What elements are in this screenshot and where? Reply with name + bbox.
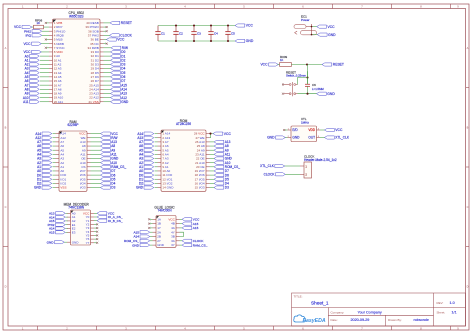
node RESET at CPU pin40 <box>104 22 111 24</box>
node D0 at ROM pin11 <box>155 174 158 176</box>
svg-text:C3: C3 <box>197 31 201 35</box>
no-connect 74HC138 Y6 <box>94 238 97 240</box>
svg-text:VCC: VCC <box>246 24 254 28</box>
node A6 at CPU pin15 <box>40 80 49 82</box>
svg-text:C2: C2 <box>179 31 183 35</box>
node A11 at ROM right pin <box>210 153 215 155</box>
node IRQ at CPU pin4 <box>42 34 49 36</box>
node D2 at ROM pin13 <box>155 182 158 184</box>
wire R009 to RESET node <box>292 64 323 66</box>
node A14 at RAM pin1 <box>53 133 56 135</box>
node XTL_CLK (XTL out) <box>320 137 325 139</box>
node D7 at ROM right pin <box>210 170 215 172</box>
no-connect XTL E/D <box>285 129 288 131</box>
wire EC1 sleeve to GND <box>312 34 318 36</box>
svg-text:GND: GND <box>72 240 80 244</box>
RAM pins and pin names <box>56 132 91 190</box>
svg-text:TITLE:: TITLE: <box>294 295 303 299</box>
node A11 at CPU pin20 <box>40 101 49 103</box>
no-connect 74HC138 Y4 <box>94 231 97 233</box>
node A7 at ROM pin3 <box>155 141 158 143</box>
svg-text:3Y: 3Y <box>171 243 175 247</box>
power flag VCC (reset) <box>269 63 279 66</box>
svg-text:W65C02S: W65C02S <box>69 15 84 19</box>
node RESET flag <box>322 63 332 66</box>
node RAM_CS_ at 74HC00 3Y <box>180 244 183 246</box>
node A3 at ROM pin7 <box>155 158 158 160</box>
svg-text:Power: Power <box>301 18 310 22</box>
node D0 at CPU pin33 <box>104 51 111 53</box>
node A13 at RAM right pin <box>91 141 101 143</box>
no-connect 74HC138 Y2 <box>94 223 97 225</box>
node D4 at RAM right pin <box>91 182 101 184</box>
wire EC1 tip to VCC <box>312 26 317 28</box>
svg-text:1K: 1K <box>37 21 41 25</box>
ground flag GND (EC1) <box>317 33 327 36</box>
node A2 at ROM pin8 <box>155 162 158 164</box>
capacitor C1 <box>157 26 159 32</box>
svg-text:RAM_CS_: RAM_CS_ <box>193 243 208 247</box>
node A7 at CPU pin16 <box>40 84 49 86</box>
svg-text:Y7: Y7 <box>86 241 90 245</box>
node A9 at RAM right pin <box>91 149 101 151</box>
svg-text:Your Company: Your Company <box>358 310 382 314</box>
no-connect 74HC138 Y5 <box>94 234 97 236</box>
svg-text:Drawn By:: Drawn By: <box>388 318 402 322</box>
svg-text:8: 8 <box>420 4 422 8</box>
svg-text:REV:: REV: <box>437 301 444 305</box>
node D7 at CPU pin26 <box>104 80 111 82</box>
svg-text:D: D <box>5 284 7 288</box>
node A10 at RAM right pin <box>91 162 101 164</box>
node A2 at CPU pin11 <box>40 63 49 65</box>
svg-text:D3: D3 <box>225 186 229 190</box>
node CLOCK at 74HC00 3A <box>180 240 183 242</box>
no-connect CPU pin35 <box>104 43 107 45</box>
node A14 at CPU pin24 <box>104 88 111 90</box>
svg-text:IO_B_CS_: IO_B_CS_ <box>108 219 123 223</box>
node A14 at 74HC138 input <box>66 216 68 218</box>
svg-text:GND: GND <box>327 92 335 96</box>
svg-text:20 A11: 20 A11 <box>54 100 64 104</box>
ground flag GND (74HC138) <box>64 241 67 243</box>
svg-text:GND: GND <box>157 243 165 247</box>
wire RESET node down to switch <box>298 65 308 85</box>
svg-text:IRQ: IRQ <box>25 34 31 38</box>
node A13 at ROM right pin <box>210 141 215 143</box>
svg-text:B: B <box>467 125 469 129</box>
svg-text:E3: E3 <box>72 230 76 234</box>
svg-text:VSS: VSS <box>60 186 66 190</box>
svg-text:RESET: RESET <box>121 21 132 25</box>
node A15 at 74HC00 2A <box>150 231 153 233</box>
ground flag GND (cap rail) <box>235 39 245 42</box>
svg-text:VCC: VCC <box>328 25 336 29</box>
power flag VCC at CPU pin8 <box>41 51 50 53</box>
node A5 at ROM pin5 <box>155 149 158 151</box>
node R/W at CPU pin34 <box>104 47 112 49</box>
node A5 at CPU pin14 <box>40 76 49 78</box>
capacitor C3 <box>193 26 195 32</box>
node A1 at ROM pin9 <box>155 166 158 168</box>
svg-text:GND: GND <box>328 33 336 37</box>
svg-text:6: 6 <box>302 4 304 8</box>
svg-text:B: B <box>5 125 7 129</box>
wire VCC to R009 <box>278 64 280 66</box>
no-connect 74HC00 1Y <box>150 227 153 229</box>
node A12 at RAM pin2 <box>53 137 56 139</box>
node IO_A_CS_ at Y0 <box>94 216 97 218</box>
svg-text:74HC00N: 74HC00N <box>158 209 173 213</box>
svg-text:1.0: 1.0 <box>450 301 455 305</box>
svg-text:VCC: VCC <box>14 25 22 29</box>
power flag VCC at CPU pin36 <box>104 39 107 41</box>
svg-text:C1: C1 <box>161 31 165 35</box>
no-connect 74HC138 Y7 <box>94 242 97 244</box>
wire switch bottom to GND node <box>298 93 317 95</box>
svg-text:RESET: RESET <box>333 63 344 67</box>
svg-text:GND: GND <box>292 136 300 140</box>
node A5 at RAM pin5 <box>53 149 56 151</box>
wire GND rail (decoupling) <box>158 40 235 42</box>
node A13 at CPU pin23 <box>104 92 111 94</box>
node CLOCK at CPU pin37 <box>104 34 110 36</box>
power flag VCC (XTL) <box>320 129 325 131</box>
node A0 at ROM pin10 <box>155 170 158 172</box>
svg-text:VCC: VCC <box>335 128 343 132</box>
power flag VCC at CPU pin6 <box>41 43 50 45</box>
no-connect CPU pin7 <box>47 47 50 49</box>
ground flag GND (XTL) <box>284 137 287 139</box>
svg-text:C4: C4 <box>214 31 218 35</box>
svg-text:OUT: OUT <box>308 136 315 140</box>
wire VCC rail (decoupling) <box>158 25 235 27</box>
svg-text:I/O3: I/O3 <box>80 186 86 190</box>
node A6 at ROM pin4 <box>155 145 158 147</box>
node A2 at RAM pin8 <box>53 162 56 164</box>
no-connect CPU pin38 <box>104 30 107 32</box>
svg-text:62256P: 62256P <box>68 123 79 127</box>
node A7 at RAM pin3 <box>53 141 56 143</box>
svg-text:1/1: 1/1 <box>452 311 457 315</box>
no-connect 74HC00 1B <box>150 223 153 225</box>
svg-text:L=1.5MM: L=1.5MM <box>312 87 324 91</box>
svg-text:Switch_0.25mm: Switch_0.25mm <box>286 74 307 78</box>
node GND at RAM pin14 <box>53 187 56 189</box>
title block <box>292 293 466 326</box>
node A4 at RAM pin6 <box>53 153 56 155</box>
op-amp U2 RAM 62256P body <box>59 131 87 191</box>
svg-text:Company:: Company: <box>331 310 345 314</box>
node A1 at CPU pin10 <box>40 59 49 61</box>
node D5 at RAM right pin <box>91 178 101 180</box>
node A3 at CPU pin12 <box>40 68 49 70</box>
ground flag GND (74HC00) <box>150 244 153 246</box>
node A9 at ROM right pin <box>210 149 215 151</box>
svg-text:VCC: VCC <box>23 42 31 46</box>
EasyEDA logo <box>294 315 326 324</box>
node GND at ROM pin14 <box>155 187 158 189</box>
node A15 at 74HC138 input <box>66 231 68 233</box>
svg-text:GND: GND <box>267 136 275 140</box>
svg-text:C: C <box>467 205 469 209</box>
CPU pins and pin names <box>49 21 104 104</box>
node D4 at ROM right pin <box>210 182 215 184</box>
svg-text:A15: A15 <box>193 226 199 230</box>
node A15 at 74HC00 4B <box>180 223 183 225</box>
power flag VCC at CPU pin2 <box>22 25 32 28</box>
svg-text:A11: A11 <box>23 100 29 104</box>
svg-text:1MHz: 1MHz <box>301 120 309 124</box>
node A6 at RAM pin4 <box>53 145 56 147</box>
node A4 at CPU pin13 <box>40 72 49 74</box>
power flag VCC (EC1) <box>317 25 327 28</box>
74HC138 pins and pin names <box>67 211 94 244</box>
no-connect CPU pin39 <box>104 26 107 28</box>
resistor RP06 1K <box>31 26 34 28</box>
node GND at ROM right pin <box>210 158 215 160</box>
node D6 at CPU pin27 <box>104 76 111 78</box>
node D2 at CPU pin31 <box>104 59 111 61</box>
svg-text:robsonde: robsonde <box>414 318 429 322</box>
node A1 at RAM pin9 <box>53 166 56 168</box>
svg-text:GND: GND <box>121 100 129 104</box>
node D2 at RAM pin13 <box>53 182 56 184</box>
svg-text:CLOCK: CLOCK <box>264 172 276 176</box>
wire 74HC00 4Y to 3B <box>180 232 184 236</box>
svg-text:1: 1 <box>22 4 24 8</box>
node VCC at RAM right pin <box>91 133 101 135</box>
ROM pins and pin names <box>158 132 210 190</box>
node A4 at ROM pin6 <box>155 153 158 155</box>
node IO_B_CS_ at Y1 <box>94 220 97 222</box>
svg-text:2: 2 <box>66 4 68 8</box>
ground flag GND (reset) <box>316 92 326 95</box>
svg-text:C: C <box>5 205 7 209</box>
node A8 at ROM right pin <box>210 145 215 147</box>
svg-text:A15: A15 <box>49 230 55 234</box>
node D3 at RAM right pin <box>91 187 101 189</box>
power flag VCC (74HC00) <box>180 218 183 220</box>
node PHI2 at 74HC138 input <box>66 224 68 226</box>
svg-text:GND: GND <box>47 240 55 244</box>
capacitor C6 L=1.5MM <box>307 71 309 84</box>
svg-text:D3: D3 <box>111 186 115 190</box>
node RAM_CS_ at RAM right pin <box>91 166 101 168</box>
ground flag GND at CPU pin21 <box>104 101 111 103</box>
node D7 at RAM right pin <box>91 170 101 172</box>
svg-text:14 GND: 14 GND <box>162 186 174 190</box>
svg-text:74HC138N: 74HC138N <box>68 206 84 210</box>
node A14 at 74HC138 input <box>66 228 68 230</box>
node D4 at CPU pin29 <box>104 68 111 70</box>
node A15 at 74HC00 4A <box>180 227 183 229</box>
svg-text:15 I/O3: 15 I/O3 <box>195 186 205 190</box>
op-amp U1 CPU_6502 W65C02S body <box>53 19 101 104</box>
node A0 at RAM pin10 <box>53 170 56 172</box>
node D5 at ROM right pin <box>210 178 215 180</box>
svg-text:GND: GND <box>136 186 144 190</box>
node GND at RAM right pin <box>91 158 101 160</box>
node A3 at RAM pin7 <box>53 158 56 160</box>
node A11 at RAM right pin <box>91 153 101 155</box>
svg-text:XTL_CLK: XTL_CLK <box>335 136 350 140</box>
node D3 at CPU pin30 <box>104 63 111 65</box>
svg-text:Header-Male-2.54_1x2: Header-Male-2.54_1x2 <box>304 158 337 162</box>
svg-text:A: A <box>467 46 469 50</box>
node D1 at ROM pin12 <box>155 178 158 180</box>
node D3 at ROM right pin <box>210 187 215 189</box>
svg-text:3: 3 <box>125 4 127 8</box>
svg-text:Sheet_1: Sheet_1 <box>311 301 329 306</box>
node A15 at 74HC138 input <box>66 220 68 222</box>
node D5 at CPU pin28 <box>104 72 111 74</box>
svg-text:7: 7 <box>361 4 363 8</box>
node A0 at CPU pin9 <box>40 55 49 57</box>
svg-text:XTL_CLK: XTL_CLK <box>260 164 275 168</box>
node ROM_CS_ at ROM right pin <box>210 166 215 168</box>
svg-text:VCC: VCC <box>224 132 232 136</box>
svg-text:GND: GND <box>34 186 42 190</box>
node A9 at CPU pin18 <box>40 92 49 94</box>
node A8 at RAM right pin <box>91 145 101 147</box>
svg-text:4: 4 <box>184 4 186 8</box>
svg-text:5: 5 <box>243 4 245 8</box>
node D0 at RAM pin11 <box>53 174 56 176</box>
svg-text:A: A <box>5 46 7 50</box>
svg-text:EasyEDA: EasyEDA <box>303 318 326 324</box>
node ROM_CS_ at 74HC00 2Y <box>150 240 153 242</box>
capacitor C2 <box>175 26 177 32</box>
no-connect 74HC00 1A <box>150 218 153 220</box>
node A15 at CPU pin25 <box>104 84 111 86</box>
svg-text:D: D <box>467 284 469 288</box>
node D1 at CPU pin32 <box>104 55 111 57</box>
node PHI2 at CPU pin3 <box>42 30 49 32</box>
svg-text:21 VSS: 21 VSS <box>88 100 98 104</box>
power flag VCC (cap rail) <box>235 24 245 27</box>
74HC00 pins and pin names <box>153 217 180 247</box>
node R/W at RAM right pin <box>91 137 101 139</box>
no-connect CPU pin1 <box>47 22 50 24</box>
node A13 at 74HC138 input <box>66 212 68 214</box>
node A14 at 74HC00 2B <box>150 236 153 238</box>
svg-text:GND: GND <box>246 39 254 43</box>
node A13 at ROM pin2 <box>155 137 158 139</box>
svg-text:2020-09-29: 2020-09-29 <box>351 318 370 322</box>
capacitor C5 <box>227 26 229 32</box>
node A10 at CPU pin19 <box>40 97 49 99</box>
node XTL_CLK to header pin1 <box>285 165 301 167</box>
svg-text:Date:: Date: <box>331 318 338 322</box>
svg-text:AT28C256: AT28C256 <box>176 122 191 126</box>
no-connect 74HC138 Y3 <box>94 227 97 229</box>
power flag VCC (74HC138) <box>94 212 97 214</box>
capacitor C4 <box>210 26 212 32</box>
node D1 at RAM pin12 <box>53 178 56 180</box>
svg-text:Sheet:: Sheet: <box>437 311 446 315</box>
node CLOCK to header pin2 <box>285 173 300 175</box>
wire ROM WE to VCC <box>210 134 214 138</box>
svg-text:E/D: E/D <box>292 128 298 132</box>
svg-text:R009: R009 <box>280 55 288 59</box>
node A8 at CPU pin17 <box>40 88 49 90</box>
node A12 at CPU pin22 <box>104 97 111 99</box>
svg-text:VCC: VCC <box>260 63 268 67</box>
node A14 at ROM pin1 <box>155 133 158 135</box>
wire RP06 to CPU pin2 <box>44 26 50 28</box>
op-amp U5 GLUE_LOGIC 74HC00N body <box>156 216 176 248</box>
no-connect CPU pin5 <box>47 39 50 41</box>
svg-text:C5: C5 <box>231 31 235 35</box>
svg-text:VDD: VDD <box>308 128 315 132</box>
svg-text:1K: 1K <box>280 58 283 62</box>
node D6 at RAM right pin <box>91 174 101 176</box>
node A10 at ROM right pin <box>210 162 215 164</box>
svg-text:9: 9 <box>457 4 459 8</box>
op-amp U4 MEM_DECODER 74HC138N body <box>71 210 91 245</box>
power flag VCC (ROM) <box>213 132 223 135</box>
svg-text:GND: GND <box>132 243 140 247</box>
node D6 at ROM right pin <box>210 174 215 176</box>
junction RESET node <box>306 63 308 65</box>
svg-text:VCC: VCC <box>117 38 125 42</box>
op-amp U3 ROM AT28C256 body <box>161 130 206 191</box>
